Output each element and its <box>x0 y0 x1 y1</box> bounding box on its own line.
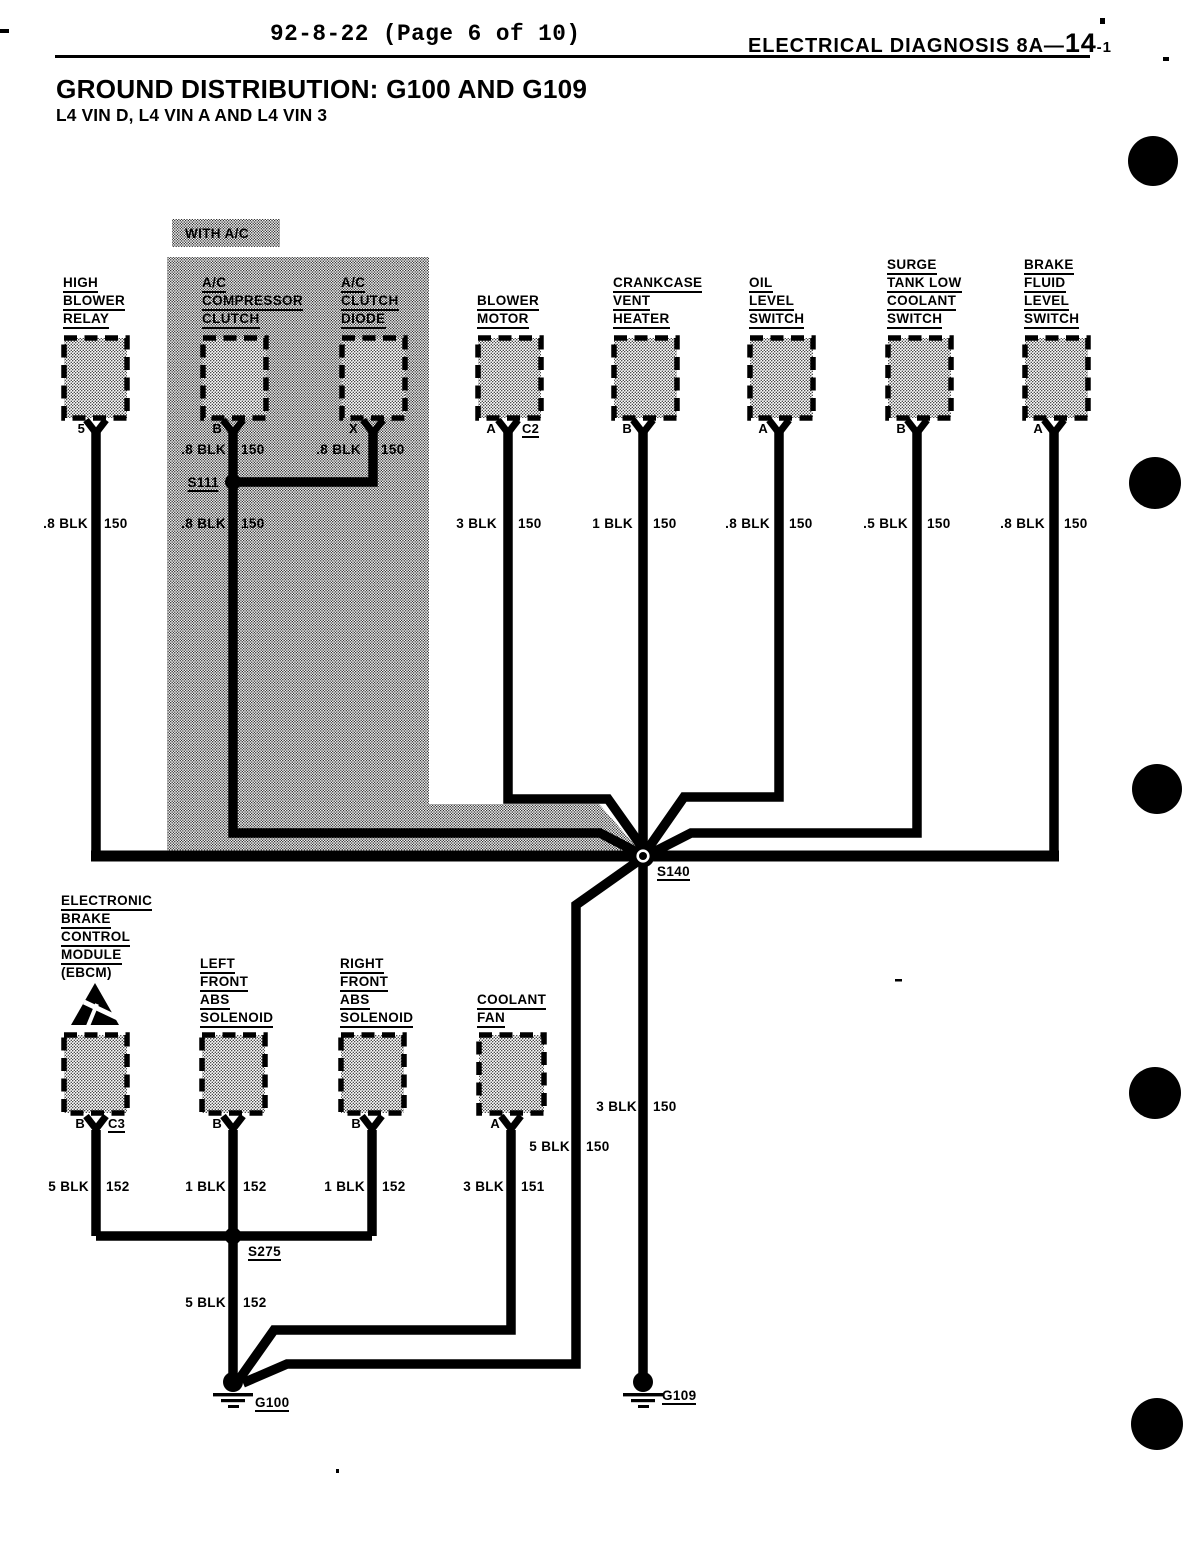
page id header <box>270 21 581 47</box>
pin A of blower motor, connector C2 <box>486 423 496 435</box>
pin Y connector W3 <box>363 420 383 433</box>
wire W1: high blower relay down to ground bus <box>91 430 101 856</box>
label right front ABS solenoid <box>340 957 384 974</box>
pin Y connector W2 <box>223 420 243 433</box>
wire value .8 BLK 150 (high blower relay) <box>43 517 88 530</box>
wire value 1 BLK 152 (left ABS) <box>185 1180 226 1193</box>
label crankcase vent heater <box>613 276 702 293</box>
pin B of surge tank switch <box>896 423 906 435</box>
wire W4: blower motor to S140 <box>508 430 647 854</box>
label surge tank low coolant switch <box>887 258 937 275</box>
pin Y connector W7 <box>907 420 927 433</box>
wire W10: coolant fan to G100 <box>238 1130 511 1381</box>
connector box: blower motor <box>478 338 541 418</box>
pin A of oil level switch <box>758 423 768 435</box>
pin Y connector W4 <box>498 420 518 433</box>
wire W11: EBCM to S275 bus <box>91 1130 101 1236</box>
pin X of a/c clutch diode <box>349 423 358 435</box>
punch hole 3 <box>1132 764 1182 814</box>
pin A of coolant fan <box>490 1118 500 1130</box>
wire value .8 BLK 150 (brake fluid switch) <box>1000 517 1045 530</box>
splice label S275 <box>248 1245 281 1261</box>
punch hole 2 <box>1129 457 1181 509</box>
wire value .5 BLK 150 (surge tank switch) <box>863 517 908 530</box>
pin 5 of high blower relay <box>78 423 85 435</box>
label blower motor <box>477 294 539 311</box>
splice label S140 <box>657 865 690 881</box>
ground label G109 <box>662 1389 696 1405</box>
splice S111 <box>225 474 241 490</box>
wire value 5 BLK 152 (S275 to G100) <box>185 1296 226 1309</box>
punch hole 1 <box>1128 136 1178 186</box>
connector box: right front ABS solenoid <box>341 1035 404 1113</box>
wire value .8 BLK 150 (oil level switch) <box>725 517 770 530</box>
label high blower relay <box>63 276 98 293</box>
pin Y connector coolant fan <box>501 1116 521 1129</box>
wire value .8 BLK 150 (a/c compressor clutch lower) <box>181 517 226 530</box>
connector box: crankcase vent heater <box>614 338 677 418</box>
ESD triangle icon above EBCM <box>71 983 122 1026</box>
wire value 3 BLK 150 (G109 branch) <box>596 1100 637 1113</box>
connector box: high blower relay <box>64 338 127 418</box>
pin B of EBCM, connector C3 <box>75 1118 85 1130</box>
connector box: coolant fan <box>479 1035 544 1113</box>
subtitle <box>56 105 327 126</box>
wire W13: right front ABS solenoid to S275 bus <box>367 1130 377 1236</box>
wire value 3 BLK 151 (coolant fan) <box>463 1180 504 1193</box>
ground G109 symbol <box>623 1372 663 1408</box>
pin Y connector W1 <box>86 420 106 433</box>
wire W3: a/c clutch diode to S111 <box>233 430 373 482</box>
wire value 5 BLK 150 (S140 to G100 branch) <box>529 1140 570 1153</box>
connector box: a/c compressor clutch <box>203 338 266 418</box>
wire value 1 BLK 150 (crankcase vent heater) <box>592 517 633 530</box>
pin A of brake fluid switch <box>1033 423 1043 435</box>
splice label S111 <box>188 476 219 492</box>
label a/c clutch diode <box>341 276 365 293</box>
ground label G100 <box>255 1396 289 1412</box>
wire value .8 BLK 150 (a/c compressor clutch upper) <box>181 443 226 456</box>
pin Y connector EBCM <box>86 1116 106 1129</box>
wire bus: long horizontal ground bus through S140 <box>91 851 1059 862</box>
connector box: brake fluid level switch <box>1025 338 1088 418</box>
wire value 3 BLK 150 (blower motor) <box>456 517 497 530</box>
wire W14: S275 bus horizontal <box>96 1231 372 1241</box>
connector box: oil level switch <box>750 338 813 418</box>
WITH A/C label background <box>172 219 280 247</box>
punch hole 5 <box>1131 1398 1183 1450</box>
wire value 5 BLK 152 (EBCM) <box>48 1180 89 1193</box>
label WITH A/C <box>185 227 249 240</box>
label brake fluid level switch <box>1024 258 1074 275</box>
with A/C shaded region <box>167 257 429 851</box>
header right: ELECTRICAL DIAGNOSIS 8A-14-1 <box>748 28 1112 59</box>
pin B of left ABS solenoid <box>212 1118 222 1130</box>
connector box: surge tank low coolant switch <box>888 338 951 418</box>
pin B of right ABS solenoid <box>351 1118 361 1130</box>
connector box: left front ABS solenoid <box>202 1035 265 1113</box>
label electronic brake control module (EBCM) <box>61 894 152 911</box>
label left front ABS solenoid <box>200 957 235 974</box>
wire W6: oil level switch to S140 <box>645 430 779 853</box>
shaded band near S140 <box>429 804 640 851</box>
wire W7: surge tank low coolant switch to S140 <box>648 430 917 855</box>
pin B of crankcase vent heater <box>622 423 632 435</box>
title <box>56 74 587 105</box>
wire value .8 BLK 150 (a/c clutch diode) <box>316 443 361 456</box>
wire value 1 BLK 152 (right ABS) <box>324 1180 365 1193</box>
wire W2: a/c compressor clutch through S111 to S140 <box>233 430 646 857</box>
pin Y connector W8 <box>1044 420 1064 433</box>
pin Y connector W5 <box>633 420 653 433</box>
ground G100 symbol <box>213 1372 253 1408</box>
pin Y connector right ABS <box>362 1116 382 1129</box>
label coolant fan <box>477 993 546 1010</box>
pin Y connector left ABS <box>223 1116 243 1129</box>
label a/c compressor clutch <box>202 276 226 293</box>
punch hole 4 <box>1129 1067 1181 1119</box>
pin Y connector W6 <box>769 420 789 433</box>
connector box: EBCM <box>64 1035 127 1113</box>
splice S275 <box>225 1228 242 1245</box>
label oil level switch <box>749 276 773 293</box>
splice S140 ring <box>632 845 655 868</box>
wire W12: left front ABS solenoid through S275 to G100 <box>228 1130 238 1378</box>
wire W9: S140 down-left to G100 <box>243 859 641 1383</box>
wire W5: crankcase vent heater through S140 down to G109 <box>638 430 648 1374</box>
wire W8: brake fluid level switch down to ground bus <box>1049 430 1059 856</box>
pin B of a/c compressor clutch <box>212 423 222 435</box>
connector box: a/c clutch diode <box>342 338 405 418</box>
dust specks <box>1100 18 1105 24</box>
header rule <box>55 55 1090 58</box>
